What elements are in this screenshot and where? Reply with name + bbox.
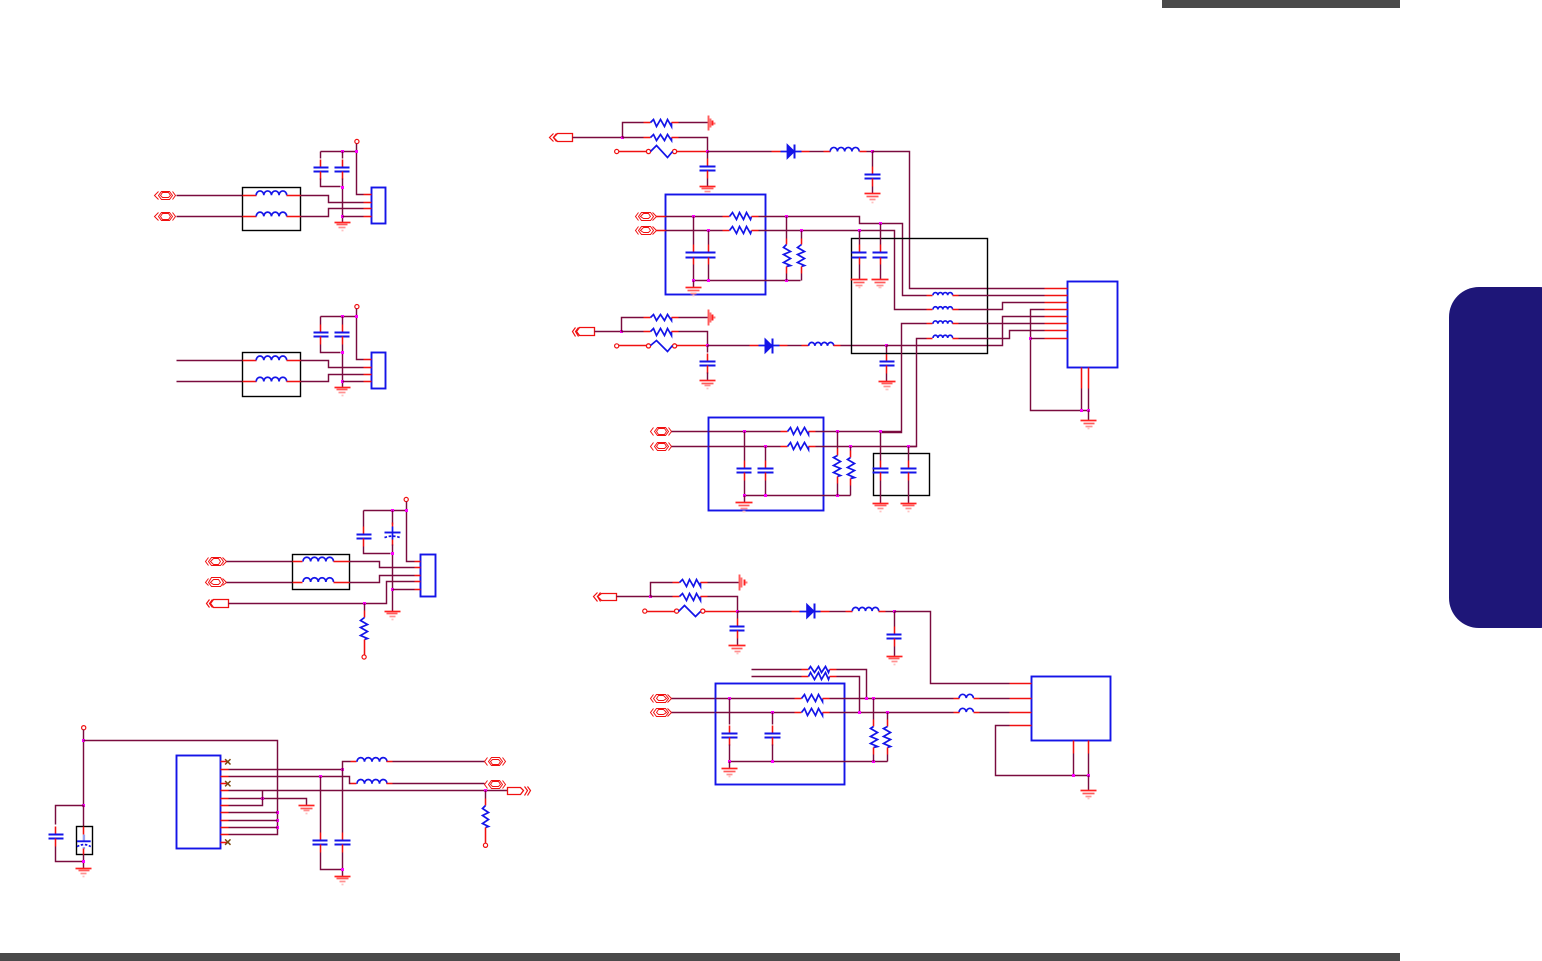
power terminal — [82, 726, 86, 730]
ground — [700, 187, 716, 195]
wire — [623, 123, 644, 138]
pin stub — [415, 581, 421, 583]
wire — [83, 806, 85, 827]
ground — [879, 382, 896, 390]
ground — [1081, 421, 1097, 429]
wire — [707, 179, 709, 187]
pin stub — [364, 202, 372, 204]
wire — [786, 217, 788, 239]
inductor T4 winding 4 — [933, 335, 953, 338]
wire — [880, 224, 882, 245]
capacitor — [729, 726, 731, 734]
pin stub — [1045, 295, 1068, 297]
wire — [738, 611, 792, 613]
resistor — [723, 230, 730, 232]
wire — [672, 431, 709, 433]
diode — [759, 345, 780, 347]
wire — [229, 791, 263, 806]
pin stub — [1081, 368, 1083, 389]
junction — [836, 430, 839, 433]
ground — [385, 612, 401, 620]
off-page connector TX- — [639, 227, 654, 235]
wire — [959, 323, 1045, 325]
ground — [873, 504, 889, 512]
capacitor C5 — [363, 527, 365, 535]
resistor — [644, 317, 651, 319]
junction — [276, 811, 279, 814]
wire — [1031, 310, 1089, 411]
common-mode choke T3 — [293, 555, 350, 590]
wire — [1081, 389, 1083, 411]
pin stub — [1045, 330, 1068, 332]
wire — [321, 345, 341, 353]
off-page connector P3B — [209, 578, 224, 587]
capacitor — [320, 833, 322, 841]
wire — [830, 698, 954, 700]
pin stub — [364, 381, 372, 383]
junction — [341, 150, 344, 153]
pin stub — [221, 842, 229, 844]
wire — [887, 755, 889, 762]
wire — [850, 486, 852, 496]
wire — [83, 855, 85, 869]
pin stub — [351, 761, 357, 763]
junction — [858, 229, 861, 232]
wire — [229, 777, 351, 784]
wire — [745, 495, 851, 497]
no-connect — [225, 759, 230, 764]
capacitor C1b — [342, 160, 344, 168]
junction — [764, 445, 767, 448]
junction — [800, 229, 803, 232]
junction — [706, 344, 709, 347]
pin stub — [927, 338, 933, 340]
wire — [321, 151, 357, 153]
wire — [841, 345, 887, 347]
wire — [867, 151, 873, 153]
RJ45 jack J4 — [1068, 282, 1118, 368]
wire — [707, 373, 709, 381]
capacitor — [908, 461, 910, 469]
wire — [694, 280, 801, 282]
junction — [391, 509, 394, 512]
pin stub — [1088, 741, 1090, 754]
crystal element — [83, 835, 85, 841]
ground — [335, 877, 351, 885]
wire — [737, 612, 739, 619]
junction — [391, 588, 394, 591]
wire — [229, 812, 278, 814]
pin stub — [387, 783, 393, 785]
ground — [335, 388, 351, 396]
wire — [752, 676, 802, 678]
pin stub — [364, 359, 372, 361]
pin stub — [221, 761, 229, 763]
pin stub — [415, 561, 421, 563]
junction — [707, 229, 710, 232]
wire — [708, 265, 710, 281]
ground — [729, 646, 746, 654]
pin stub — [824, 151, 831, 153]
resistor — [802, 676, 809, 678]
inductor — [852, 607, 878, 611]
capacitor C2a — [320, 325, 322, 333]
capacitor — [737, 619, 739, 627]
off-page connector — [598, 594, 617, 601]
resistor — [786, 239, 788, 245]
inductor T3 winding B — [303, 578, 334, 582]
common-mode choke T1 — [243, 188, 301, 231]
junction — [858, 711, 861, 714]
off-page connector — [554, 134, 573, 142]
wire — [859, 231, 861, 245]
pin stub — [953, 338, 959, 340]
resistor — [795, 712, 802, 714]
inductor T2 winding A — [256, 356, 287, 360]
wire — [672, 712, 716, 714]
pin stub — [792, 611, 800, 613]
wire — [342, 853, 344, 877]
wire — [909, 339, 927, 447]
wire — [56, 806, 84, 825]
wire — [343, 762, 351, 770]
diode — [781, 151, 802, 153]
surge arrester — [646, 149, 650, 153]
junction — [728, 697, 731, 700]
wire — [672, 446, 709, 448]
ground — [76, 869, 92, 877]
wire — [392, 511, 394, 525]
wire — [666, 230, 723, 232]
capacitor C2b — [342, 325, 344, 333]
resistor — [887, 720, 889, 727]
capacitor — [707, 354, 709, 362]
junction — [836, 494, 839, 497]
capacitor — [880, 245, 882, 253]
resistor — [850, 451, 852, 458]
wire — [177, 360, 243, 362]
ground — [335, 223, 351, 231]
ground — [887, 657, 903, 665]
pin stub — [364, 208, 372, 210]
wire — [744, 432, 746, 461]
off-page connector MDI0- — [489, 781, 503, 789]
junction — [1087, 774, 1090, 777]
power terminal — [404, 497, 408, 501]
connector J2 — [372, 353, 386, 389]
pin stub — [1045, 316, 1068, 318]
pin stub — [954, 698, 960, 700]
pin stub — [221, 769, 229, 771]
connector J3 — [421, 555, 436, 597]
wire — [887, 713, 889, 720]
resistor — [673, 582, 680, 584]
pin stub — [221, 834, 229, 836]
pin stub — [846, 611, 853, 613]
pin stub — [657, 230, 666, 232]
pin stub — [953, 295, 959, 297]
wire — [708, 151, 772, 153]
wire — [229, 790, 508, 792]
off-page connector LAN_P1B — [159, 213, 173, 221]
connector J1 — [372, 188, 386, 224]
wire — [595, 331, 622, 333]
wire — [617, 596, 651, 598]
pin stub — [802, 151, 810, 153]
pin stub — [387, 761, 393, 763]
wire — [407, 502, 415, 562]
pin stub — [415, 575, 421, 577]
wire — [894, 612, 896, 627]
inductor T2 winding B — [256, 377, 287, 381]
wire — [229, 799, 307, 806]
wire — [573, 137, 623, 139]
wire — [708, 231, 710, 245]
off-page connector TIP — [654, 695, 669, 703]
wire — [881, 324, 927, 433]
wire — [651, 583, 673, 597]
wire — [350, 576, 415, 583]
junction — [1029, 337, 1032, 340]
wire — [737, 639, 739, 646]
pin stub — [221, 776, 229, 778]
wire — [765, 481, 767, 496]
wire — [364, 547, 391, 554]
capacitor — [744, 461, 746, 469]
junction — [743, 494, 746, 497]
junction — [764, 494, 767, 497]
wire — [301, 209, 364, 217]
off-page connector RX- — [655, 443, 669, 451]
junction — [341, 186, 344, 189]
wire — [677, 151, 708, 153]
wire — [343, 381, 364, 383]
wire — [816, 431, 902, 433]
polarized capacitor C6 — [392, 523, 394, 527]
off-page connector — [577, 328, 595, 336]
terminal — [615, 344, 619, 348]
ground — [851, 280, 868, 288]
chassis ground — [709, 116, 715, 131]
junction — [692, 279, 695, 282]
pin stub — [364, 374, 372, 376]
resistor — [795, 698, 802, 700]
pin stub — [351, 783, 357, 785]
wire — [679, 332, 708, 346]
junction — [1080, 409, 1083, 412]
wire — [693, 281, 695, 288]
capacitor — [894, 627, 896, 635]
power terminal — [355, 139, 359, 143]
wire — [666, 216, 723, 218]
pin stub — [334, 582, 350, 584]
ground — [700, 381, 716, 389]
no-connect — [225, 839, 230, 844]
wire — [850, 447, 852, 451]
wire — [980, 698, 1010, 700]
junction — [1087, 409, 1090, 412]
chassis ground — [709, 310, 715, 326]
wire — [744, 496, 746, 503]
pin stub — [953, 309, 959, 311]
off-page connector RING — [654, 709, 669, 717]
pin stub — [879, 611, 886, 613]
junction — [261, 797, 264, 800]
wire — [320, 777, 322, 833]
resistor — [801, 239, 803, 245]
inductor T4 winding 1 — [933, 293, 953, 296]
junction — [621, 136, 624, 139]
inductor — [809, 342, 834, 346]
wire — [886, 374, 888, 382]
capacitor C1a — [320, 160, 322, 168]
pin stub — [287, 216, 301, 218]
pin stub — [927, 309, 933, 311]
junction — [82, 804, 85, 807]
wire — [342, 179, 344, 223]
wire — [980, 712, 1010, 714]
pin stub — [221, 798, 229, 800]
junction — [736, 610, 739, 613]
wire — [1073, 754, 1075, 776]
wire — [227, 582, 293, 584]
pin stub — [243, 381, 257, 383]
wire — [772, 745, 774, 762]
pin stub — [1045, 288, 1068, 290]
junction — [872, 697, 875, 700]
junction — [849, 445, 852, 448]
wire — [1031, 338, 1045, 340]
wire — [707, 346, 709, 353]
wire — [651, 596, 673, 598]
wire — [677, 345, 708, 347]
wire — [392, 545, 394, 612]
junction — [276, 826, 279, 829]
junction — [620, 330, 623, 333]
capacitor — [886, 354, 888, 362]
capacitor — [880, 461, 882, 469]
diode — [800, 611, 821, 613]
junction — [871, 150, 874, 153]
wire — [229, 820, 278, 822]
wire — [342, 345, 344, 388]
wire — [873, 152, 1045, 289]
wire — [619, 151, 647, 153]
capacitor block — [874, 454, 930, 496]
resistor R1 — [364, 611, 366, 618]
terminal — [483, 843, 487, 847]
wire — [744, 481, 746, 496]
junction — [1072, 774, 1075, 777]
pin stub — [834, 345, 841, 347]
junction — [885, 344, 888, 347]
wire — [816, 446, 917, 448]
wire — [229, 827, 278, 829]
pin stub — [415, 567, 421, 569]
resistor — [781, 446, 788, 448]
pin stub — [974, 712, 980, 714]
ground — [686, 288, 702, 296]
wire — [708, 582, 740, 584]
wire — [177, 381, 243, 383]
pin stub — [1045, 323, 1068, 325]
pin stub — [293, 561, 303, 563]
pin stub — [221, 783, 229, 785]
wire — [177, 216, 243, 218]
junction — [865, 697, 868, 700]
pin stub — [364, 367, 372, 369]
wire — [393, 589, 415, 591]
wire — [679, 317, 709, 319]
wire — [679, 122, 709, 124]
wire — [810, 151, 824, 153]
pin stub — [243, 216, 257, 218]
resistor — [802, 669, 809, 671]
LAN filter module U1 — [666, 195, 766, 295]
DAA module U4 — [1032, 677, 1111, 741]
inductor L2 — [357, 780, 387, 784]
wire — [709, 431, 781, 433]
resistor — [837, 449, 839, 456]
pin stub — [293, 582, 303, 584]
capacitor — [872, 167, 874, 175]
pin stub — [821, 611, 830, 613]
pin stub — [287, 360, 301, 362]
pin stub — [221, 805, 229, 807]
wire — [716, 712, 795, 714]
wire — [364, 510, 407, 512]
junction — [82, 739, 85, 742]
pin stub — [1045, 302, 1068, 304]
wire — [619, 345, 647, 347]
wire — [693, 217, 695, 245]
pin stub — [953, 323, 959, 325]
off-page connector P3A — [209, 558, 224, 566]
wire — [880, 433, 882, 461]
wire — [752, 669, 802, 671]
wire — [301, 375, 364, 382]
pin stub — [927, 295, 933, 297]
pin stub — [334, 561, 350, 563]
junction — [879, 430, 882, 433]
wire — [647, 611, 675, 613]
pin stub — [1010, 712, 1032, 714]
wire — [177, 195, 243, 197]
junction — [879, 222, 882, 225]
junction — [785, 215, 788, 218]
wire — [1088, 754, 1090, 776]
wire — [320, 152, 322, 159]
junction — [706, 150, 709, 153]
off-page connector REF — [508, 788, 524, 795]
inductor T4 winding 2 — [933, 307, 953, 310]
pin stub — [780, 345, 788, 347]
inductor T1 winding A — [256, 191, 287, 195]
pin stub — [1010, 725, 1032, 727]
wire — [622, 318, 644, 332]
junction — [341, 768, 344, 771]
wire — [716, 698, 795, 700]
junction — [341, 351, 344, 354]
junction — [785, 279, 788, 282]
junction — [886, 711, 889, 714]
wire — [229, 769, 343, 771]
inductor L1 — [357, 758, 387, 762]
wire — [908, 447, 910, 461]
wire — [886, 346, 888, 354]
junction — [276, 819, 279, 822]
LAN transformer T4 — [852, 239, 988, 354]
